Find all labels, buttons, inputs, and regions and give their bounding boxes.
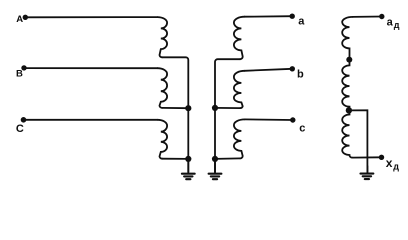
svg-text:a: a [387,16,394,28]
svg-text:A: A [16,14,23,25]
svg-text:b: b [297,68,304,80]
svg-text:B: B [16,69,23,80]
svg-text:д: д [394,20,400,30]
svg-text:c: c [299,122,305,134]
svg-text:x: x [386,156,393,170]
svg-text:д: д [393,161,399,171]
svg-text:C: C [16,123,24,135]
svg-text:a: a [298,15,305,27]
